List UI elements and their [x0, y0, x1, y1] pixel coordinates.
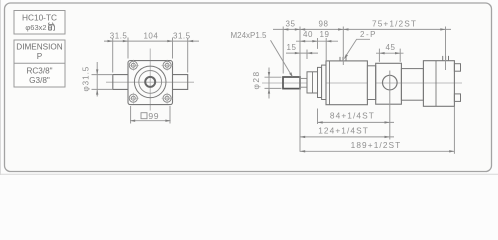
svg-text:124+1/4ST: 124+1/4ST — [318, 125, 369, 135]
dim square99 line — [130, 120, 171, 122]
arrows 124 — [300, 136, 390, 138]
bolt hole TL — [128, 60, 139, 71]
tube1 inner line — [329, 61, 331, 105]
svg-text:φ28: φ28 — [251, 70, 261, 89]
svg-text:35: 35 — [286, 20, 296, 29]
svg-text:2-P: 2-P — [360, 30, 377, 39]
svg-text:31.5: 31.5 — [110, 31, 128, 40]
tube2 circle port — [383, 75, 398, 90]
svg-text:75+1/2ST: 75+1/2ST — [372, 19, 417, 29]
ext collar right for 84 — [317, 109, 319, 125]
arrows 45 — [379, 52, 400, 54]
port2 thread ticks — [443, 56, 449, 61]
flange rod bore thick ring — [145, 77, 155, 87]
scan edge artifact bottom — [0, 173, 498, 175]
dim 124 line — [300, 136, 394, 138]
ext port1 centerline — [342, 27, 344, 66]
flange horizontal centerline — [106, 81, 194, 83]
rod plain section — [300, 78, 307, 87]
kanji glyph block — [48, 23, 55, 31]
svg-text:104: 104 — [143, 31, 158, 40]
gland head step2 — [322, 65, 326, 99]
flange top dimension row line — [104, 40, 199, 42]
dia31.5 ext top — [92, 74, 114, 76]
arrows row1 — [283, 28, 445, 30]
ext 45 left — [378, 49, 380, 62]
dim 84 line — [318, 121, 395, 123]
ext 45 right — [399, 49, 401, 62]
svg-text:φ31.5: φ31.5 — [82, 66, 91, 92]
flange right port boss — [173, 75, 188, 90]
table box dimension — [14, 40, 65, 87]
stage joint ring — [367, 66, 375, 100]
arrows 189 — [300, 150, 454, 152]
svg-text:31.5: 31.5 — [173, 31, 191, 40]
flange pilot circle outer — [134, 66, 166, 98]
ext port2 centerline — [445, 27, 447, 71]
dia28 ext bottom — [265, 87, 282, 89]
table box model — [14, 11, 65, 35]
ext thread start — [282, 27, 284, 74]
border frame — [5, 3, 492, 172]
svg-text:φ63x2: φ63x2 — [25, 23, 46, 32]
ext collar right short — [317, 38, 319, 49]
ext line square right — [172, 38, 174, 59]
flange pilot circle inner — [139, 71, 162, 94]
dim square99 ext right — [169, 106, 171, 124]
svg-text:19: 19 — [320, 30, 330, 39]
dim text square symbol — [141, 113, 147, 119]
dim square99 ext left — [130, 106, 132, 124]
side view main centerline — [262, 82, 462, 84]
arrows flange top row — [108, 40, 194, 42]
cap inner line — [435, 61, 437, 107]
dim 45 line — [376, 52, 404, 54]
end cap body — [423, 61, 454, 107]
svg-text:45: 45 — [386, 43, 396, 52]
rod collar — [307, 72, 318, 93]
arrows dia31.5 — [96, 69, 98, 94]
table divider — [14, 62, 65, 64]
rod thread section — [283, 77, 300, 89]
ext tube1 face — [325, 38, 327, 61]
bolt hole TR — [162, 60, 173, 71]
leader 2-P arrowhead — [344, 54, 348, 59]
svg-text:15: 15 — [287, 43, 297, 52]
flange left port boss — [113, 75, 128, 90]
svg-text:DIMENSION: DIMENSION — [16, 43, 62, 52]
arrows row3 — [295, 52, 312, 54]
bolt hole BL — [128, 93, 139, 104]
flange vertical centerline — [149, 49, 151, 111]
svg-text:P: P — [37, 52, 43, 61]
tube2 body — [376, 63, 402, 104]
dia31.5 dim line — [96, 62, 98, 97]
ext cap right long — [453, 107, 455, 154]
arrows square99 — [130, 120, 171, 122]
mid tube stage2 — [401, 69, 423, 101]
dim row1 line — [273, 28, 451, 30]
dim row3 line — [286, 52, 318, 54]
scan edge artifact left — [0, 0, 2, 175]
arrows row2 — [300, 40, 331, 42]
ext collar left short — [306, 50, 308, 60]
svg-text:84+1/4ST: 84+1/4ST — [330, 111, 375, 121]
svg-text:189+1/2ST: 189+1/2ST — [351, 140, 402, 150]
cap tab top — [454, 64, 460, 71]
gland head step1 — [318, 67, 322, 97]
leader M24 — [271, 40, 293, 76]
svg-text:99: 99 — [148, 111, 159, 121]
leader M24 arrowhead — [289, 72, 293, 77]
svg-text:HC10-TC: HC10-TC — [22, 12, 57, 22]
port1 thread ticks — [340, 57, 346, 61]
svg-text:M24xP1.5: M24xP1.5 — [230, 31, 267, 40]
arrows 84 — [318, 121, 390, 123]
dia28 dim line — [268, 68, 270, 99]
collar inner line — [312, 72, 314, 93]
svg-text:40: 40 — [303, 30, 313, 39]
svg-text:G3/8": G3/8" — [29, 76, 50, 85]
ext line left boss tip — [112, 38, 114, 73]
cap tab bottom — [454, 94, 460, 102]
flange square body — [128, 61, 173, 105]
bolt hole BR — [162, 93, 173, 104]
ext circle centerline long — [389, 71, 391, 140]
arrows dia28 — [268, 72, 270, 94]
dia31.5 ext bottom — [92, 88, 114, 90]
dim row2 line — [296, 40, 338, 42]
leader 2-P — [345, 39, 370, 57]
tube1 body — [326, 61, 367, 105]
page background — [0, 0, 498, 175]
ext rod start long — [299, 27, 301, 152]
ext line right boss tip — [187, 38, 189, 73]
svg-text:98: 98 — [319, 20, 329, 29]
dia28 ext top — [265, 76, 282, 78]
dim 189 line — [300, 150, 454, 152]
ext line square left — [127, 38, 129, 59]
svg-text:RC3/8": RC3/8" — [26, 66, 52, 75]
